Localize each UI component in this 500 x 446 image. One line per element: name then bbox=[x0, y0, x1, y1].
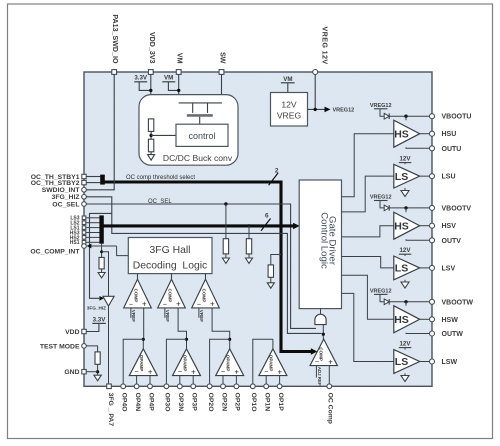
wire bbox=[225, 254, 227, 258]
comparator OC Comp bbox=[310, 339, 337, 366]
pin OUTW bbox=[430, 331, 435, 336]
gate G1 (dome) bbox=[315, 314, 326, 324]
svg-text:HS: HS bbox=[394, 220, 409, 232]
svg-text:OP3P: OP3P bbox=[191, 393, 198, 412]
svg-text:VREG12: VREG12 bbox=[370, 195, 392, 201]
svg-text:2: 2 bbox=[275, 167, 279, 174]
pin VDD_3V3 bbox=[148, 70, 153, 75]
wire minus stub bbox=[136, 376, 138, 384]
svg-text:OUTU: OUTU bbox=[442, 146, 462, 153]
diode DW bbox=[384, 299, 389, 305]
wire box to gate bbox=[320, 309, 322, 315]
pin VBOOTW bbox=[430, 299, 435, 304]
wire HSW input bbox=[342, 275, 394, 319]
pin OP4O bbox=[121, 384, 126, 389]
ground arrow buck bbox=[150, 152, 152, 155]
wire vref stub bbox=[198, 308, 200, 318]
wire OC_SEL bbox=[86, 204, 316, 328]
svg-text:−: − bbox=[197, 299, 201, 308]
12V VREG box bbox=[271, 93, 308, 127]
wire bbox=[150, 131, 152, 139]
resistor R3 (OC_SEL pulldown) bbox=[223, 239, 228, 254]
svg-text:VM: VM bbox=[164, 75, 173, 82]
svg-text:−: − bbox=[315, 357, 319, 366]
pin OP2O bbox=[207, 384, 212, 389]
svg-text:GND: GND bbox=[64, 369, 79, 376]
diode DV bbox=[384, 205, 389, 211]
svg-text:6: 6 bbox=[265, 212, 269, 219]
wire comp out bbox=[137, 274, 139, 280]
driver LSV bbox=[394, 256, 420, 280]
svg-text:OC_SEL: OC_SEL bbox=[52, 201, 79, 208]
wire branch to buffer bbox=[102, 252, 109, 297]
wire stub bbox=[86, 236, 100, 238]
pin VM bbox=[176, 70, 181, 75]
pin TEST MODE bbox=[82, 344, 87, 349]
wire COMP1 plus input bbox=[143, 308, 145, 339]
wire OUTU bbox=[406, 147, 430, 148]
wire OUTW bbox=[406, 332, 430, 335]
svg-text:OP4N: OP4N bbox=[134, 393, 141, 412]
pin HSV bbox=[430, 223, 435, 228]
wire bbox=[270, 277, 272, 282]
wire opamp out riser bbox=[142, 339, 144, 349]
svg-text:HS: HS bbox=[394, 314, 409, 326]
control box bbox=[176, 124, 228, 146]
ground arrow bbox=[246, 258, 253, 263]
3FG Hall Decoding Logic box bbox=[128, 238, 212, 274]
svg-text:DC/DC Buck conv: DC/DC Buck conv bbox=[163, 153, 233, 163]
junction dot opamp out bbox=[142, 338, 145, 341]
svg-text:LSW: LSW bbox=[442, 359, 458, 366]
pin OP1O bbox=[250, 384, 255, 389]
svg-text:VREF: VREF bbox=[199, 310, 204, 322]
pin OP3O bbox=[164, 384, 169, 389]
svg-text:Decoding Logic: Decoding Logic bbox=[133, 261, 208, 272]
junction dot opamp out bbox=[185, 338, 188, 341]
junction dot bus pulldown bbox=[247, 224, 250, 227]
pin OP2N bbox=[221, 384, 226, 389]
bus merge bar (LS/HS) bbox=[99, 215, 103, 243]
svg-text:3FG Hall: 3FG Hall bbox=[150, 245, 191, 256]
wire stub bbox=[86, 232, 100, 234]
svg-text:+: + bbox=[210, 300, 215, 309]
pin LS2 bbox=[82, 221, 86, 225]
bus OC comp threshold select (2) bbox=[103, 182, 312, 352]
wire minus stub bbox=[179, 376, 181, 384]
svg-text:3FG_HIZ: 3FG_HIZ bbox=[52, 194, 80, 201]
wire bbox=[101, 269, 103, 273]
svg-text:control: control bbox=[188, 131, 215, 141]
svg-text:LSU: LSU bbox=[442, 174, 456, 181]
pin HS3 bbox=[82, 231, 86, 235]
pin OC_TH_STBY2 bbox=[82, 180, 86, 184]
bus hall/gate 6 bbox=[103, 224, 295, 227]
wire VM riser bbox=[178, 74, 180, 103]
wire HS out to HSU bbox=[420, 133, 430, 135]
driver HSU bbox=[394, 120, 420, 147]
pin LSW bbox=[430, 359, 435, 364]
svg-text:+: + bbox=[234, 367, 239, 376]
svg-text:HSW: HSW bbox=[442, 317, 459, 324]
ground arrow LS bbox=[404, 188, 406, 191]
svg-text:HS: HS bbox=[394, 128, 409, 140]
comparator COMP1 bbox=[124, 279, 152, 308]
pin 3FG_HIZ bbox=[82, 195, 87, 200]
svg-text:VREG12: VREG12 bbox=[333, 108, 355, 114]
wire out tap bbox=[253, 339, 273, 384]
buffer 3FG_HIZ (tri-state) bbox=[103, 296, 114, 306]
resistor R4 (bus pulldown) bbox=[246, 239, 251, 254]
svg-text:COMP: COMP bbox=[167, 289, 172, 303]
diode DU bbox=[384, 113, 389, 119]
bus merge bar (OC_TH) bbox=[100, 175, 105, 185]
svg-text:VREG12: VREG12 bbox=[370, 289, 392, 295]
wire stub bbox=[86, 241, 100, 243]
wire diode to VBOOTW bbox=[389, 301, 429, 303]
svg-text:OC_SEL: OC_SEL bbox=[148, 199, 172, 205]
driver HSW bbox=[394, 306, 420, 333]
wire stub bbox=[86, 217, 100, 219]
resistor R6 (cluster pulldown) bbox=[99, 257, 104, 269]
pin SWDIO_INT bbox=[82, 188, 87, 193]
pin OP1N bbox=[264, 384, 269, 389]
DC/DC Buck conv box bbox=[139, 95, 238, 166]
svg-text:VBOOTV: VBOOTV bbox=[442, 205, 472, 212]
driver HSV bbox=[394, 212, 420, 239]
pin HS1 bbox=[82, 241, 86, 245]
svg-text:Gate Driver: Gate Driver bbox=[327, 216, 338, 266]
junction dot opamp out bbox=[228, 338, 231, 341]
driver LSW bbox=[394, 350, 420, 374]
wire OC_COMP_INT w/ arrow bbox=[91, 245, 117, 247]
ground arrow bbox=[222, 258, 229, 263]
op-amp OP4 bbox=[129, 349, 157, 376]
wire diode to VBOOTV bbox=[389, 207, 429, 209]
junction dot divider tap bbox=[149, 134, 152, 137]
wire HS out to HSV bbox=[420, 225, 430, 227]
transistor Q1 buck PMOS bbox=[179, 102, 222, 104]
pin VBOOTV bbox=[430, 205, 435, 210]
svg-text:OP2O: OP2O bbox=[207, 393, 214, 412]
ground arrow bbox=[98, 273, 105, 278]
svg-text:TEST MODE: TEST MODE bbox=[40, 343, 80, 350]
svg-text:+: + bbox=[278, 367, 283, 376]
svg-text:OUTV: OUTV bbox=[442, 238, 462, 245]
wire SW riser bbox=[221, 74, 223, 103]
svg-text:COMP: COMP bbox=[319, 347, 324, 361]
wire VREG12V riser bbox=[314, 75, 316, 110]
svg-text:VM: VM bbox=[283, 76, 292, 83]
svg-text:VREF: VREF bbox=[131, 310, 136, 322]
wire COMP2 plus input bbox=[178, 308, 186, 339]
pin HS2 bbox=[82, 236, 86, 240]
svg-text:ADJ REF: ADJ REF bbox=[317, 367, 322, 386]
svg-text:3FG _ PA7: 3FG _ PA7 bbox=[107, 393, 114, 427]
svg-text:+: + bbox=[148, 367, 153, 376]
wire plus stub to pin bbox=[328, 366, 330, 384]
wire VDD_3V3 riser bbox=[150, 74, 152, 119]
bus width slash 6 bbox=[261, 219, 271, 231]
wire stub bbox=[86, 222, 100, 224]
wire stub bbox=[86, 227, 100, 229]
wire HS out to HSW bbox=[420, 318, 430, 320]
wire OUTV bbox=[406, 239, 430, 240]
wire LSU input bbox=[342, 176, 394, 212]
svg-text:OP4O: OP4O bbox=[121, 393, 128, 412]
svg-text:−: − bbox=[264, 367, 268, 376]
svg-text:OPAMP: OPAMP bbox=[182, 355, 187, 372]
op-amp OP1 bbox=[259, 349, 287, 376]
wire diode to VBOOTU bbox=[389, 115, 429, 117]
svg-text:3FG_HIZ: 3FG_HIZ bbox=[87, 306, 106, 311]
wire LSW input bbox=[342, 293, 394, 361]
op-amp OP2 bbox=[216, 349, 244, 376]
wire 3FG_HIZ routing bbox=[86, 197, 322, 334]
ground arrow LS bbox=[404, 373, 406, 375]
pin VREG 12V bbox=[313, 70, 318, 75]
pin OP1P bbox=[277, 384, 282, 389]
junction dot bbox=[177, 89, 180, 92]
svg-text:+: + bbox=[142, 300, 147, 309]
wire bootstrap drop bbox=[405, 302, 407, 306]
svg-text:VREF: VREF bbox=[165, 310, 170, 322]
wire bbox=[86, 371, 97, 373]
svg-text:VREG12: VREG12 bbox=[370, 103, 392, 109]
ground arrow bbox=[267, 283, 274, 288]
wire VREG out arrow bbox=[308, 108, 325, 110]
wire opamp out riser bbox=[229, 339, 231, 349]
wire LS out to LSU bbox=[420, 175, 430, 177]
pin HSW bbox=[430, 317, 435, 322]
junction dot thick-line pulldown bbox=[279, 253, 282, 256]
svg-text:LS: LS bbox=[395, 263, 408, 275]
pin SW bbox=[219, 70, 224, 75]
wire opamp out riser bbox=[186, 339, 188, 349]
svg-text:12V: 12V bbox=[399, 341, 411, 348]
pin OC_TH_STBY1 bbox=[82, 174, 86, 178]
junction dot OC_SEL pulldown bbox=[224, 202, 227, 205]
junction dot bbox=[404, 115, 407, 118]
wire bbox=[248, 226, 250, 239]
pin OP4N bbox=[134, 384, 139, 389]
pin LS3 bbox=[82, 216, 86, 220]
svg-text:3.3V: 3.3V bbox=[134, 75, 148, 82]
wire SWDIO_INT to PA13 bbox=[86, 74, 114, 189]
svg-text:SWDIO_INT: SWDIO_INT bbox=[42, 187, 81, 194]
svg-text:OPAMP: OPAMP bbox=[139, 355, 144, 372]
svg-text:OP3N: OP3N bbox=[177, 393, 184, 412]
wire OC_TH_STBY2 stub bbox=[86, 182, 101, 184]
svg-text:−: − bbox=[163, 299, 167, 308]
svg-text:HSU: HSU bbox=[442, 131, 457, 138]
pin GND bbox=[82, 370, 86, 374]
wire comp out bbox=[171, 274, 173, 280]
Control Logic Gate Driver box bbox=[299, 180, 341, 309]
svg-text:VBOOTU: VBOOTU bbox=[442, 114, 472, 121]
svg-text:−: − bbox=[129, 299, 133, 308]
wire tap to control bbox=[151, 134, 176, 136]
svg-text:HSV: HSV bbox=[442, 223, 457, 230]
svg-text:OC comp threshold select: OC comp threshold select bbox=[126, 175, 195, 181]
wire bbox=[86, 346, 97, 352]
pin OUTU bbox=[430, 146, 435, 151]
wire comp out bbox=[205, 274, 207, 280]
pin LS1 bbox=[82, 226, 86, 230]
svg-text:OPAMP: OPAMP bbox=[269, 355, 274, 372]
svg-text:VDD: VDD bbox=[65, 329, 79, 336]
wire out tap bbox=[166, 339, 186, 384]
junction dot bbox=[404, 206, 407, 209]
svg-text:LS: LS bbox=[395, 356, 408, 368]
comparator COMP3 bbox=[192, 279, 220, 308]
svg-text:OC_TH_STBY2: OC_TH_STBY2 bbox=[31, 180, 80, 187]
svg-text:VBOOTW: VBOOTW bbox=[442, 299, 474, 306]
pin HSU bbox=[430, 131, 435, 136]
wire plus stub bbox=[192, 376, 194, 384]
op-amp OP3 bbox=[173, 349, 201, 376]
wire plus stub bbox=[235, 376, 237, 384]
svg-text:3.3V: 3.3V bbox=[93, 316, 107, 323]
pin OC_COMP_INT bbox=[82, 244, 87, 249]
svg-text:12V: 12V bbox=[281, 99, 297, 109]
pin LSV bbox=[430, 265, 435, 270]
svg-text:OPAMP: OPAMP bbox=[226, 355, 231, 372]
wire bootstrap drop bbox=[405, 208, 407, 212]
wire HSV input bbox=[342, 226, 394, 237]
wire 3FG_HIZ branch to buffer bbox=[90, 213, 112, 298]
wire LSV input bbox=[342, 257, 394, 268]
svg-text:+: + bbox=[328, 357, 333, 366]
comparator COMP2 bbox=[158, 279, 186, 308]
svg-text:+: + bbox=[191, 367, 196, 376]
wire gate out bbox=[322, 325, 324, 340]
wire COMP3 plus input bbox=[212, 308, 230, 339]
junction dot bbox=[314, 108, 317, 111]
svg-text:OP4P: OP4P bbox=[147, 393, 154, 412]
svg-text:VREG 12V: VREG 12V bbox=[320, 27, 329, 65]
svg-text:12V: 12V bbox=[399, 247, 411, 254]
pin OUTV bbox=[430, 238, 435, 243]
wire ADJ REF stub bbox=[315, 366, 317, 378]
driver LSU bbox=[394, 164, 420, 188]
wire vref stub bbox=[164, 308, 166, 318]
wire bbox=[97, 364, 99, 374]
wire bbox=[271, 255, 281, 265]
pin OP3N bbox=[177, 384, 182, 389]
svg-text:−: − bbox=[178, 367, 182, 376]
svg-text:LS: LS bbox=[395, 171, 408, 183]
wire out tap bbox=[210, 339, 230, 384]
ground arrow LS bbox=[404, 280, 406, 282]
resistor R1 bbox=[148, 119, 153, 131]
wire OC_TH_STBY1 stub bbox=[86, 176, 101, 178]
wire bootstrap drop bbox=[405, 116, 407, 120]
ground arrow bbox=[94, 375, 101, 381]
wire HSU input bbox=[342, 134, 394, 197]
wire LS out to LSW bbox=[420, 361, 430, 363]
pin 3FG_PA7 bbox=[107, 384, 112, 389]
pin OC Comp bbox=[327, 384, 332, 389]
wire bbox=[117, 246, 129, 256]
pin PA13_SWD_IO bbox=[112, 70, 117, 75]
svg-text:+: + bbox=[176, 300, 181, 309]
wire cluster pulldown bbox=[101, 244, 103, 258]
svg-text:−: − bbox=[221, 367, 225, 376]
wire plus stub bbox=[279, 376, 281, 384]
wire plus stub bbox=[149, 376, 151, 384]
resistor R2 bbox=[148, 139, 153, 152]
wire out tap bbox=[123, 339, 143, 384]
svg-text:VREG: VREG bbox=[277, 111, 302, 121]
junction dot bbox=[96, 370, 99, 373]
svg-text:OC Comp: OC Comp bbox=[327, 393, 334, 424]
pin OP2P bbox=[234, 384, 239, 389]
resistor R5 bbox=[268, 265, 273, 277]
junction dot bbox=[322, 333, 325, 336]
wire minus stub bbox=[222, 376, 224, 384]
svg-text:LSV: LSV bbox=[442, 265, 456, 272]
pin LSU bbox=[430, 174, 435, 179]
svg-text:−: − bbox=[134, 367, 138, 376]
svg-text:HS1: HS1 bbox=[70, 240, 80, 246]
wire LS out to LSV bbox=[420, 267, 430, 269]
wire minus stub bbox=[265, 376, 267, 384]
svg-text:OP1N: OP1N bbox=[264, 393, 271, 412]
resistor R7 (test mode) bbox=[95, 352, 100, 364]
svg-text:COMP: COMP bbox=[201, 289, 206, 303]
svg-text:OP1O: OP1O bbox=[250, 393, 257, 412]
pin VDD bbox=[82, 329, 86, 333]
junction dot bbox=[404, 300, 407, 303]
svg-text:OP2N: OP2N bbox=[220, 393, 227, 412]
wire vref stub bbox=[130, 308, 132, 318]
wire bbox=[86, 323, 99, 331]
svg-text:OUTW: OUTW bbox=[442, 331, 464, 338]
svg-text:OP2P: OP2P bbox=[234, 393, 241, 412]
junction dot bbox=[149, 89, 152, 92]
pin VBOOTU bbox=[430, 114, 435, 119]
wire opamp out riser bbox=[272, 339, 274, 349]
junction dot bbox=[100, 250, 103, 253]
bus width slash 2 bbox=[269, 173, 279, 185]
svg-text:VM: VM bbox=[176, 53, 184, 64]
svg-text:COMP: COMP bbox=[133, 289, 138, 303]
svg-text:VDD_3V3: VDD_3V3 bbox=[148, 32, 156, 64]
wire bbox=[225, 204, 227, 239]
svg-text:PA13_SWD_IO: PA13_SWD_IO bbox=[111, 14, 119, 64]
wire buffer out to 3FG_PA7 bbox=[108, 306, 110, 384]
pin OC_SEL bbox=[82, 202, 87, 207]
svg-text:OC_COMP_INT: OC_COMP_INT bbox=[30, 248, 80, 255]
pin OP4P bbox=[148, 384, 153, 389]
svg-text:OP3O: OP3O bbox=[164, 393, 171, 412]
svg-text:OP1P: OP1P bbox=[277, 393, 284, 412]
svg-text:SW: SW bbox=[219, 52, 227, 64]
pin OP3P bbox=[191, 384, 196, 389]
wire bbox=[248, 254, 250, 258]
svg-text:12V: 12V bbox=[399, 156, 411, 163]
